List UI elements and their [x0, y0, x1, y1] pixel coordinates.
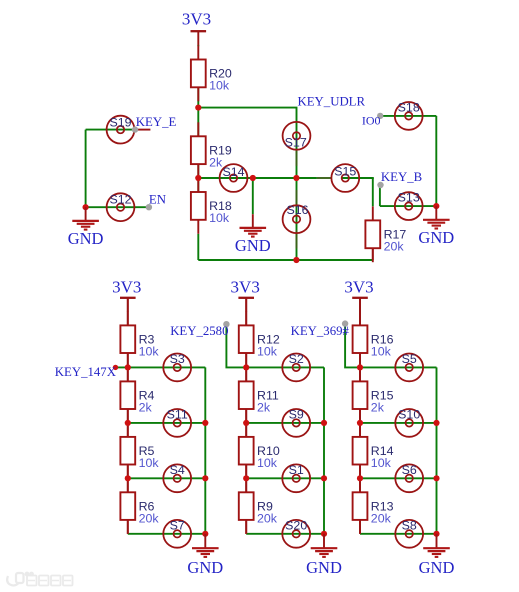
wire GND branch middle [252, 178, 254, 214]
wire R20 to node A [197, 87, 199, 107]
wire col1 row1 [116, 366, 206, 368]
resistor R10 10k [239, 423, 280, 479]
wire node B segment to R18 [197, 164, 199, 192]
junction node A [195, 105, 201, 111]
svg-text:20k: 20k [371, 511, 392, 525]
wire node A to KEY_UDLR corner [198, 108, 296, 178]
junction col3 ladder row3 [357, 475, 363, 481]
wire left vertical [85, 130, 87, 208]
svg-text:S20: S20 [285, 519, 307, 533]
net label KEY_147X [55, 365, 117, 379]
pushbutton switch S11 [163, 408, 191, 437]
svg-text:GND: GND [187, 558, 223, 577]
resistor R5 10k [120, 423, 159, 479]
net label EN [149, 193, 166, 207]
resistor R16 10k [353, 311, 394, 367]
pushbutton switch S13 [395, 191, 423, 220]
pushbutton switch S5 [395, 352, 423, 381]
svg-text:KEY_147X: KEY_147X [55, 365, 117, 379]
junction col3 ladder row1 [357, 364, 363, 370]
pin stub S16 bottom [296, 230, 298, 249]
pin ladder col3 seg5 [359, 520, 361, 534]
resistor R14 10k [353, 423, 394, 479]
junction S17/S16 node [293, 175, 299, 181]
wire col3 right bus [436, 367, 438, 533]
pin stub S19 right [135, 129, 150, 131]
resistor R17 20k [365, 206, 406, 262]
junction col3 ladder row2 [357, 420, 363, 426]
wire col2 KEY_2580 drop and row1 [226, 324, 324, 367]
svg-text:KEY_B: KEY_B [381, 170, 422, 184]
svg-text:S7: S7 [170, 519, 185, 533]
pushbutton switch S2 [282, 352, 310, 381]
wire S12 row [86, 206, 149, 208]
svg-text:KEY_E: KEY_E [136, 115, 177, 129]
wire col1 row2 [128, 422, 206, 424]
junction right GND [433, 203, 439, 209]
pushbutton switch S8 [395, 519, 423, 548]
junction col3 bus row2 [433, 420, 439, 426]
wire 3V3 to R20 [197, 45, 199, 46]
pin ladder col1 seg3 [127, 409, 129, 437]
svg-text:KEY_369#: KEY_369# [291, 324, 350, 338]
junction col1 bus row2 [202, 420, 208, 426]
wire node A to node B [197, 108, 199, 137]
wire col3 KEY_369 drop and row1 [345, 324, 436, 368]
power port 3V3 [112, 278, 141, 312]
ground middle [235, 214, 271, 255]
wire col1 right bus [204, 367, 206, 533]
svg-text:10k: 10k [257, 345, 278, 359]
pin ladder col3 seg2 [359, 353, 361, 381]
junction col2 ladder row2 [243, 420, 249, 426]
pin ladder col3 seg1 [359, 298, 361, 326]
junction node B left [195, 175, 201, 181]
svg-text:2k: 2k [371, 401, 385, 415]
watermark logo [7, 573, 33, 586]
net label KEY_2580 [170, 324, 228, 338]
power port 3V3 [182, 9, 211, 45]
resistor R12 10k [239, 311, 280, 367]
pin ladder col2 seg4 [245, 465, 247, 493]
svg-text:GND: GND [419, 558, 455, 577]
net label KEY_UDLR [298, 94, 366, 108]
svg-text:10k: 10k [209, 211, 230, 225]
svg-text:S15: S15 [334, 165, 356, 179]
junction left GND [83, 204, 89, 210]
pushbutton switch S4 [163, 463, 191, 492]
pin ladder col1 seg2 [127, 353, 129, 381]
svg-text:KEY_2580: KEY_2580 [170, 324, 228, 338]
wire S13 row [380, 205, 436, 207]
wire KEY_B drop [379, 185, 381, 206]
pin ladder col1 seg5 [127, 520, 129, 534]
svg-text:3V3: 3V3 [344, 278, 373, 297]
svg-text:20k: 20k [139, 511, 160, 525]
junction GND branch [250, 175, 256, 181]
wire S16 vertical [296, 178, 298, 260]
svg-text:3V3: 3V3 [231, 278, 260, 297]
svg-text:S12: S12 [109, 192, 131, 206]
net label KEY_369# [291, 324, 350, 338]
resistor R6 20k [120, 478, 159, 534]
net label KEY_B [381, 170, 422, 184]
pushbutton switch S3 [163, 352, 191, 381]
pin ladder col3 seg4 [359, 465, 361, 493]
svg-text:S14: S14 [222, 165, 244, 179]
ground left [68, 207, 104, 248]
svg-text:S11: S11 [167, 408, 188, 422]
svg-text:GND: GND [418, 228, 454, 247]
junction col2 bus row2 [321, 420, 327, 426]
junction bus S16 [293, 257, 299, 263]
resistor R3 10k [120, 311, 159, 367]
pushbutton switch S17 [283, 122, 311, 150]
power port 3V3 [344, 278, 373, 312]
svg-text:S8: S8 [402, 519, 417, 533]
wire corner down to R17 [372, 178, 374, 206]
pushbutton switch S6 [395, 463, 423, 492]
power port 3V3 [231, 278, 260, 312]
wire col2 right bus [323, 367, 325, 533]
pushbutton switch S19 [107, 115, 135, 143]
resistor R18 10k [191, 178, 232, 234]
junction col1 ladder row1 [125, 364, 131, 370]
svg-text:GND: GND [235, 236, 271, 255]
pushbutton switch S14 [220, 164, 248, 192]
svg-text:10k: 10k [371, 456, 392, 470]
pushbutton switch S7 [163, 519, 191, 548]
svg-text:20k: 20k [384, 240, 405, 254]
svg-text:10k: 10k [139, 345, 160, 359]
wire S18 row [380, 115, 436, 117]
ground col2 [306, 534, 342, 577]
pin stub R17 bottom [372, 248, 374, 260]
svg-text:KEY_UDLR: KEY_UDLR [298, 94, 366, 108]
svg-text:GND: GND [68, 229, 104, 248]
resistor R13 20k [353, 478, 394, 534]
wire top bottom bus [198, 259, 372, 261]
svg-text:S6: S6 [402, 463, 417, 477]
resistor R19 2k [191, 122, 232, 178]
svg-text:EN: EN [149, 193, 166, 207]
svg-text:IO0: IO0 [362, 113, 381, 127]
junction col1 ladder row3 [125, 475, 131, 481]
resistor R9 20k [239, 478, 278, 534]
wire col3 row4 [360, 533, 437, 535]
resistor R15 2k [353, 367, 394, 423]
pin stub S17 bottom [296, 150, 298, 166]
net dot KEY_369# [342, 320, 348, 326]
pin ladder col2 seg1 [245, 298, 247, 326]
ground right [418, 206, 454, 247]
junction col2 bus row3 [321, 475, 327, 481]
wire col1 row3 [128, 477, 206, 479]
pushbutton switch S1 [282, 463, 310, 492]
wire end dot KEY_147X [113, 365, 118, 370]
pin ladder col3 seg3 [359, 409, 361, 437]
pin ladder col1 seg1 [127, 298, 129, 326]
wire col3 row2 [360, 422, 437, 424]
watermark text [27, 576, 73, 586]
svg-text:20k: 20k [257, 511, 278, 525]
wire S19 row [86, 129, 135, 131]
svg-text:S17: S17 [285, 136, 307, 150]
wire col1 row4 [128, 533, 206, 535]
net label IO0 [362, 113, 381, 127]
wire node B row horizontal [198, 177, 317, 179]
wire col3 row3 [360, 477, 437, 479]
wire col2 row3 [246, 477, 324, 479]
pushbutton switch S15 [331, 164, 359, 192]
svg-text:S1: S1 [289, 463, 304, 477]
svg-text:10k: 10k [371, 345, 392, 359]
wire right vertical [435, 116, 437, 206]
svg-text:S10: S10 [398, 408, 420, 422]
resistor R4 2k [120, 367, 154, 423]
svg-text:GND: GND [306, 558, 342, 577]
resistor R11 2k [239, 367, 279, 423]
junction col2 ladder row3 [243, 475, 249, 481]
pushbutton switch S18 [395, 101, 423, 130]
ground col3 [419, 534, 455, 577]
junction col3 bus row3 [433, 475, 439, 481]
junction col1 bus row3 [202, 475, 208, 481]
svg-text:S9: S9 [289, 408, 304, 422]
net dot KEY_E [132, 126, 138, 132]
net label KEY_E [136, 115, 177, 129]
wire col2 row4 [246, 533, 324, 535]
junction col3 bus row4 [433, 531, 439, 537]
pushbutton switch S12 [107, 192, 135, 221]
svg-text:S4: S4 [170, 463, 185, 477]
svg-text:S5: S5 [402, 352, 417, 366]
svg-text:10k: 10k [257, 456, 278, 470]
ground col1 [187, 534, 223, 577]
wire col2 row2 [246, 422, 324, 424]
svg-text:S13: S13 [398, 191, 420, 205]
svg-text:S19: S19 [109, 115, 131, 129]
wire R18 to bottom bus [197, 234, 199, 260]
pushbutton switch S20 [282, 519, 310, 548]
pin ladder col1 seg4 [127, 465, 129, 493]
svg-text:S3: S3 [170, 352, 185, 366]
pushbutton switch S9 [282, 408, 310, 437]
pushbutton switch S16 [283, 203, 311, 233]
svg-text:10k: 10k [139, 456, 160, 470]
svg-text:S16: S16 [286, 203, 308, 217]
svg-text:2k: 2k [257, 401, 271, 415]
pin stub S15 left [317, 177, 332, 179]
pin stub S16 top [296, 190, 298, 205]
resistor R20 10k [191, 46, 232, 102]
svg-text:3V3: 3V3 [182, 9, 211, 28]
junction col2 ladder row1 [243, 364, 249, 370]
net dot IO0 [377, 113, 383, 119]
pushbutton switch S10 [395, 408, 423, 437]
pin ladder col2 seg2 [245, 353, 247, 381]
net dot KEY_B [377, 182, 383, 188]
svg-text:S18: S18 [398, 101, 420, 115]
junction col2 bus row4 [321, 531, 327, 537]
net dot EN [146, 204, 152, 210]
svg-text:S2: S2 [289, 352, 304, 366]
junction col1 ladder row2 [125, 420, 131, 426]
svg-text:2k: 2k [139, 401, 153, 415]
svg-text:2k: 2k [209, 155, 223, 169]
svg-text:3V3: 3V3 [112, 278, 141, 297]
junction col1 bus row4 [202, 531, 208, 537]
wire S15 inner right to corner [342, 177, 374, 179]
pin ladder col2 seg3 [245, 409, 247, 437]
svg-text:10k: 10k [209, 79, 230, 93]
net dot KEY_2580 [223, 321, 229, 327]
pin ladder col2 seg5 [245, 520, 247, 534]
